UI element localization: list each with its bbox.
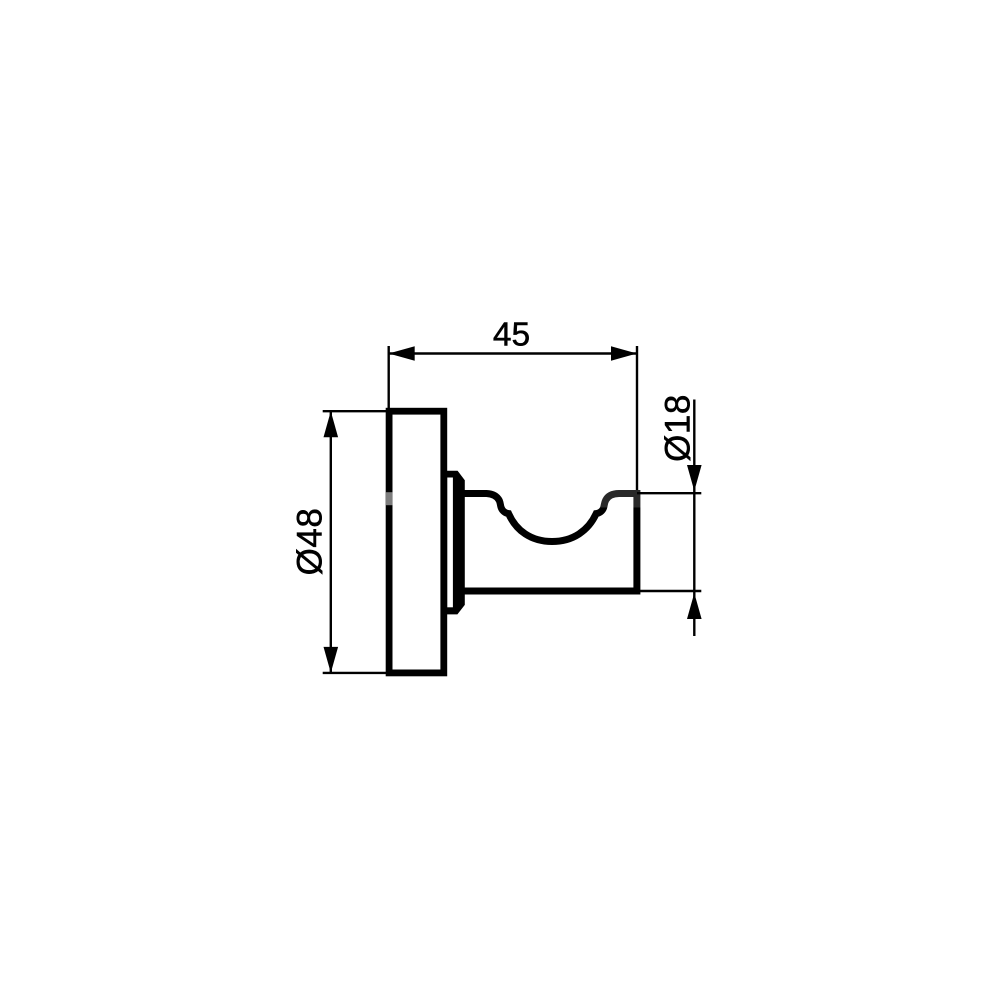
- svg-text:Ø18: Ø18: [659, 394, 698, 462]
- svg-text:45: 45: [493, 316, 530, 353]
- svg-text:Ø48: Ø48: [291, 508, 330, 576]
